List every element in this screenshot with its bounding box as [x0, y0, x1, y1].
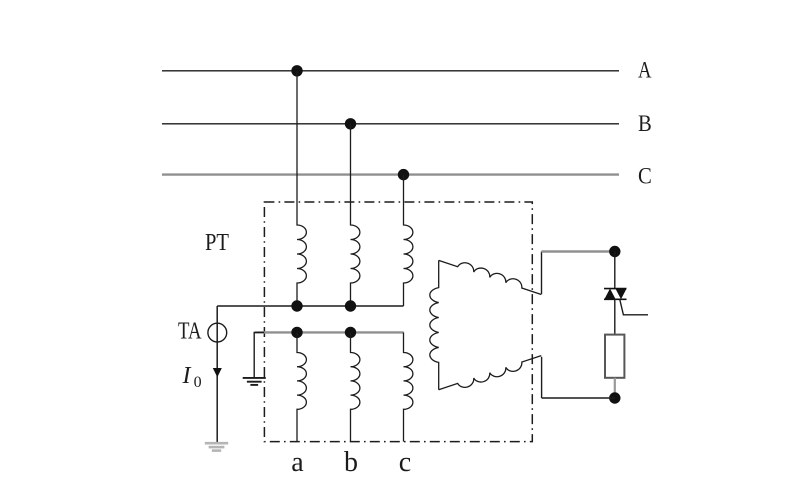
svg-text:I: I: [182, 363, 192, 389]
svg-text:TA: TA: [178, 319, 202, 345]
svg-text:A: A: [638, 57, 652, 82]
svg-text:c: c: [399, 447, 411, 478]
svg-text:b: b: [344, 447, 358, 478]
svg-text:C: C: [638, 164, 652, 189]
svg-text:B: B: [638, 111, 652, 136]
svg-text:PT: PT: [205, 230, 229, 256]
svg-text:0: 0: [194, 374, 202, 391]
svg-text:a: a: [291, 447, 304, 478]
